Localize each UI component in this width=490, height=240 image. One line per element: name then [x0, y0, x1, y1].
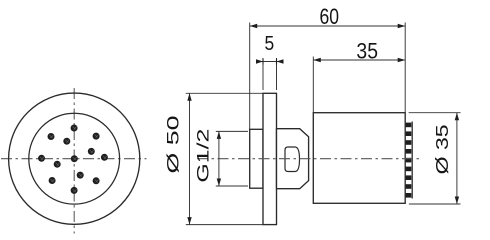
nozzle dot inner right — [88, 148, 95, 155]
dimension 60 line — [250, 25, 406, 27]
knurled end rim — [411, 122, 413, 199]
dimension Ø50 line — [189, 93, 191, 224]
dimension Ø50 extension line top — [186, 92, 263, 94]
dimension 5 tick right — [276, 59, 278, 65]
dimension 5 extension line right — [276, 58, 278, 90]
dimension 5 line — [256, 61, 283, 63]
dimension 5 arrow right — [277, 59, 284, 63]
svg-text:35: 35 — [356, 39, 378, 64]
dimension G1/2 arrow top — [217, 131, 221, 139]
dimension G1/2 arrow bottom — [217, 179, 221, 187]
nozzle dot right — [101, 154, 108, 161]
dimension 5 tick left — [262, 59, 264, 65]
neck cone — [277, 129, 309, 189]
dimension 5 arrow left — [256, 59, 263, 63]
dimension 60 arrow right — [398, 24, 406, 28]
svg-text:Ø 35: Ø 35 — [432, 124, 452, 174]
dimension 60 arrow left — [250, 24, 258, 28]
dimension 35 extension line left — [312, 57, 314, 113]
dimension 35 line — [313, 59, 405, 61]
nozzle dot top-left — [48, 133, 55, 140]
dimension 35 arrow right — [398, 58, 406, 62]
nozzle dot center — [71, 155, 78, 162]
nozzle dot bottom-right — [93, 177, 100, 184]
dimension Ø50 arrow bottom — [187, 217, 191, 225]
dimension G1/2 extension line bottom — [216, 185, 248, 187]
dimension 5 extension line left — [262, 58, 264, 90]
dimension Ø50 extension line bottom — [186, 224, 263, 226]
dimension Ø35 line — [456, 113, 458, 204]
nozzle dot bottom — [71, 187, 78, 194]
ball detail — [285, 147, 300, 172]
knurled end teeth — [406, 123, 412, 198]
nozzle dot top-right — [93, 133, 100, 140]
svg-text:Ø 50: Ø 50 — [164, 116, 183, 174]
spray body Ø35 — [313, 113, 405, 204]
side view centerline — [197, 158, 419, 160]
nozzle dot highlights — [40, 127, 107, 192]
svg-text:5: 5 — [265, 33, 275, 55]
dimension Ø35 extension line top — [409, 112, 461, 114]
G1/2 threaded nipple — [250, 129, 263, 188]
nozzle dot bottom-left — [49, 177, 56, 184]
dimension Ø35 arrow bottom — [455, 197, 459, 205]
nozzle dot top — [71, 125, 78, 132]
front view outer circle (flange Ø50) — [9, 93, 140, 224]
dimension 60/35 extension line right — [404, 23, 406, 113]
dimension 35 arrow left — [313, 58, 321, 62]
front view vertical centerline — [73, 88, 75, 234]
front view horizontal centerline — [1, 158, 147, 160]
dimension G1/2 extension line top — [216, 130, 248, 132]
nozzle dot inner lower — [77, 172, 84, 179]
nozzle dot inner upper — [63, 138, 70, 145]
dimension Ø35 extension line bottom — [409, 203, 461, 205]
dimension G1/2 line — [218, 131, 220, 186]
dimension Ø50 arrow top — [187, 93, 191, 101]
wall plate (escutcheon Ø50) — [263, 93, 277, 224]
nozzle dot left — [38, 155, 45, 162]
dimension Ø35 arrow top — [455, 113, 459, 121]
nozzle dots group — [38, 125, 108, 194]
svg-text:G1/2: G1/2 — [194, 129, 213, 183]
nozzle dot inner left — [54, 161, 61, 168]
svg-text:60: 60 — [320, 4, 340, 29]
front view inner circle (face Ø35) — [29, 113, 120, 204]
dimension 60 extension line left — [249, 23, 251, 130]
